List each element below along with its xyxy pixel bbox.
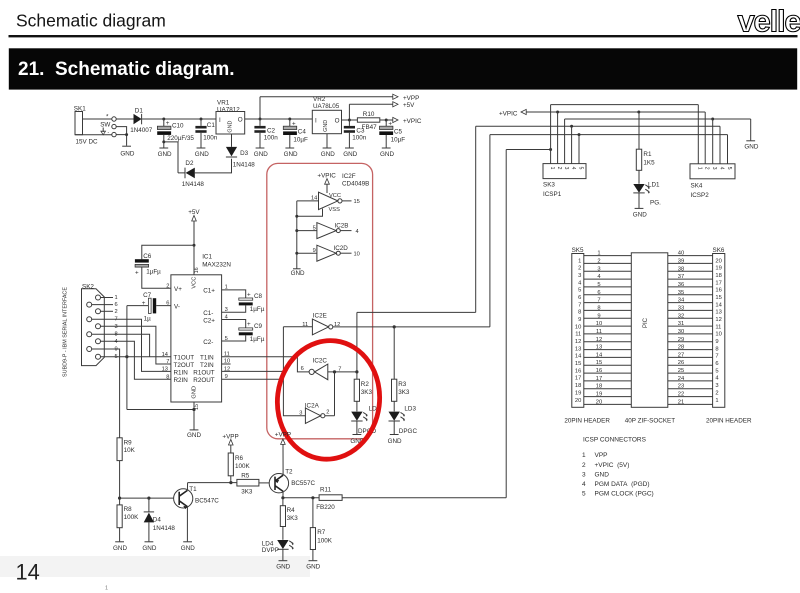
svg-text:VPP: VPP [595, 452, 608, 459]
svg-text:2: 2 [166, 283, 169, 289]
svg-text:+5V: +5V [188, 209, 200, 216]
svg-text:11: 11 [302, 322, 308, 328]
svg-text:R2: R2 [361, 381, 370, 388]
node [281, 496, 284, 499]
resistor R3 [392, 327, 410, 412]
ground [291, 269, 305, 277]
svg-text:GND: GND [323, 120, 329, 132]
power +5V (MAX232) [188, 209, 200, 275]
wire base line [120, 497, 174, 499]
svg-text:SK4: SK4 [691, 183, 703, 190]
wire R2OUT to IC2A [222, 379, 306, 415]
svg-text:40P ZIF-SOCKET: 40P ZIF-SOCKET [625, 418, 675, 425]
transistor Q2 (T2 BC557C) [269, 444, 315, 498]
svg-text:ICSP1: ICSP1 [543, 191, 562, 198]
svg-text:IC1: IC1 [202, 254, 212, 261]
svg-text:VCC: VCC [329, 193, 341, 199]
svg-text:6: 6 [715, 361, 718, 367]
svg-text:VR2: VR2 [313, 96, 326, 103]
LED LD1 [633, 182, 661, 208]
node [348, 119, 351, 122]
power +5V [393, 102, 415, 110]
power +VPIC (ICSP feed) [499, 109, 526, 117]
node [125, 355, 128, 358]
inverter IC2D [295, 245, 360, 261]
svg-text:IC2B: IC2B [335, 222, 349, 229]
svg-text:1N4007: 1N4007 [130, 127, 153, 134]
resistor R4 [280, 498, 298, 540]
header SK5 [572, 247, 584, 407]
svg-text:C6: C6 [143, 253, 152, 260]
ground [388, 435, 402, 445]
wire [142, 118, 216, 120]
regulator VR1 [216, 100, 245, 135]
svg-text:R5: R5 [241, 473, 250, 480]
svg-text:T2IN: T2IN [200, 362, 214, 369]
pin 7 wire [92, 317, 171, 372]
svg-text:1µFµ: 1µFµ [146, 268, 161, 275]
wire SK5 to ZIF pin rows [584, 256, 632, 405]
svg-text:32: 32 [678, 313, 684, 319]
svg-text:8: 8 [578, 310, 581, 316]
svg-text:GND: GND [276, 564, 290, 571]
inverter IC2F [297, 192, 360, 216]
diode D2 [178, 160, 204, 188]
svg-text:13: 13 [575, 346, 581, 352]
wire collector row [283, 497, 319, 499]
svg-text:IC2F: IC2F [342, 173, 356, 180]
wire [116, 127, 126, 146]
svg-text:R1IN: R1IN [174, 369, 189, 376]
IC PIC 40P ZIF socket [631, 253, 668, 407]
svg-text:R10: R10 [363, 111, 375, 118]
ground [744, 141, 758, 151]
svg-text:3: 3 [711, 167, 717, 170]
node [549, 148, 552, 151]
svg-text:9: 9 [313, 248, 316, 254]
svg-text:O: O [238, 117, 243, 124]
svg-text:14: 14 [715, 302, 722, 308]
svg-text:6: 6 [597, 290, 600, 296]
node [556, 111, 559, 114]
svg-text:DPGC: DPGC [399, 428, 418, 435]
svg-text:3K3: 3K3 [241, 488, 253, 495]
svg-text:16: 16 [715, 288, 721, 294]
capacitor C7 [127, 292, 171, 322]
svg-text:2: 2 [556, 167, 562, 170]
capacitor C9 [222, 320, 265, 344]
svg-text:4: 4 [718, 167, 724, 170]
svg-text:GND: GND [195, 151, 209, 158]
svg-text:vellem: vellem [738, 4, 800, 39]
svg-text:19: 19 [596, 392, 602, 398]
pin 3 wire [101, 324, 171, 364]
svg-text:+VPIC: +VPIC [499, 110, 518, 117]
svg-text:20: 20 [596, 399, 602, 405]
resistor R6 [228, 453, 250, 483]
svg-text:1: 1 [578, 258, 581, 264]
svg-text:4: 4 [115, 339, 118, 345]
svg-text:GND: GND [380, 151, 394, 158]
svg-text:5: 5 [597, 282, 600, 288]
pin 1 [101, 295, 118, 301]
svg-text:5: 5 [578, 288, 581, 294]
svg-text:D2: D2 [185, 160, 194, 167]
connector SK4 ICSP2 [690, 164, 735, 199]
svg-text:C2-: C2- [203, 339, 213, 346]
ZIF right pin numbers [678, 251, 685, 406]
svg-text:5: 5 [715, 368, 718, 374]
svg-text:100n: 100n [352, 135, 367, 142]
svg-text:C2+: C2+ [203, 317, 215, 324]
node [162, 118, 165, 121]
svg-text:PIC: PIC [643, 317, 649, 328]
resistor R1 [636, 112, 655, 184]
wire GND rail [565, 119, 751, 140]
SK5 pin numbers [575, 258, 582, 404]
svg-text:IC2C: IC2C [313, 358, 328, 365]
diode D3 [226, 134, 255, 168]
node [118, 497, 121, 500]
diode D4 [144, 497, 176, 542]
svg-text:C1-: C1- [203, 310, 213, 317]
wire PGD drop [475, 126, 477, 312]
svg-text:GND: GND [142, 545, 156, 552]
capacitor C6 [135, 245, 194, 288]
svg-text:1: 1 [582, 452, 586, 459]
svg-text:LD1: LD1 [648, 182, 660, 189]
svg-text:5: 5 [726, 167, 732, 170]
ground [195, 148, 209, 158]
wire VPIC rail [526, 111, 705, 113]
svg-text:PG.: PG. [650, 200, 661, 207]
svg-text:6: 6 [578, 295, 581, 301]
wire MAX232 gnd [127, 402, 194, 430]
svg-text:1µFµ: 1µFµ [250, 336, 265, 343]
svg-text:C1: C1 [207, 122, 216, 129]
node [578, 133, 581, 136]
svg-text:D4: D4 [153, 517, 162, 524]
wire SK4 pins [698, 105, 727, 164]
svg-text:T1OUT: T1OUT [174, 355, 195, 362]
svg-text:33: 33 [678, 305, 684, 311]
node [311, 496, 314, 499]
svg-text:GND: GND [306, 564, 320, 571]
svg-text:40: 40 [678, 251, 684, 257]
svg-text:1: 1 [697, 167, 703, 170]
svg-text:7: 7 [115, 317, 118, 323]
svg-text:PGM CLOCK (PGC): PGM CLOCK (PGC) [595, 491, 654, 498]
svg-text:21: 21 [678, 399, 684, 405]
highlight box (red rounded rect) [267, 163, 373, 438]
svg-text:GND: GND [388, 438, 402, 445]
svg-text:11: 11 [596, 329, 602, 335]
svg-text:C9: C9 [254, 323, 263, 330]
ground [350, 435, 364, 445]
svg-text:12: 12 [596, 337, 602, 343]
svg-text:3: 3 [299, 410, 302, 416]
svg-text:11: 11 [575, 332, 581, 338]
svg-text:BC547C: BC547C [195, 497, 219, 504]
svg-text:O: O [335, 117, 340, 124]
wire PGD rail [476, 125, 720, 127]
ground [321, 148, 335, 158]
inverter IC2B [295, 222, 358, 238]
svg-text:2: 2 [597, 258, 600, 264]
svg-text:4: 4 [570, 167, 576, 170]
svg-text:GND: GND [254, 151, 268, 158]
svg-text:15V DC: 15V DC [76, 139, 99, 146]
svg-text:17: 17 [575, 376, 581, 382]
svg-text:R1: R1 [643, 151, 652, 158]
svg-text:T1IN: T1IN [200, 355, 214, 362]
svg-text:C4: C4 [298, 129, 307, 136]
svg-text:3: 3 [563, 167, 569, 170]
svg-text:1: 1 [715, 398, 718, 404]
svg-text:R6: R6 [235, 455, 244, 462]
pin 9 wire [92, 347, 120, 438]
svg-text:100K: 100K [317, 537, 333, 544]
svg-text:5: 5 [577, 167, 583, 170]
svg-text:R8: R8 [124, 506, 133, 513]
svg-text:8: 8 [715, 346, 718, 352]
svg-text:+VPIC (5V): +VPIC (5V) [595, 462, 630, 469]
svg-text:V-: V- [174, 304, 180, 311]
svg-text:1µ: 1µ [144, 315, 152, 322]
svg-text:220µF/35: 220µF/35 [167, 135, 194, 142]
svg-text:1N4148: 1N4148 [233, 161, 256, 168]
svg-text:28: 28 [678, 345, 684, 351]
node [125, 133, 128, 136]
svg-text:GND: GND [291, 270, 305, 277]
power +VPIC (inverter) [317, 172, 369, 193]
wire VPP rail [551, 104, 699, 106]
diode D1 [130, 108, 153, 134]
svg-text:20PIN HEADER: 20PIN HEADER [706, 418, 752, 425]
svg-text:14: 14 [596, 352, 603, 358]
svg-text:20: 20 [715, 258, 721, 264]
svg-text:3: 3 [597, 266, 600, 272]
node [333, 370, 336, 373]
svg-text:9: 9 [715, 339, 718, 345]
ground [633, 208, 647, 218]
capacitor C4 [283, 119, 308, 148]
svg-text:31: 31 [678, 321, 684, 327]
svg-text:100n: 100n [203, 135, 218, 142]
svg-text:GND: GND [187, 432, 201, 439]
svg-text:D1: D1 [135, 108, 144, 115]
svg-text:14: 14 [16, 560, 40, 585]
ground [113, 542, 127, 552]
wire T2IN stub [222, 363, 231, 365]
svg-text:IC2A: IC2A [305, 402, 320, 409]
svg-text:3K3: 3K3 [287, 515, 299, 522]
svg-text:GND: GND [181, 545, 195, 552]
svg-text:15: 15 [596, 360, 602, 366]
svg-text:SK6: SK6 [713, 247, 725, 254]
wire [75, 119, 112, 135]
svg-text:SK2: SK2 [82, 284, 94, 291]
svg-text:100K: 100K [235, 463, 251, 470]
svg-text:C1+: C1+ [203, 288, 215, 295]
svg-text:GND: GND [744, 144, 758, 151]
svg-text:GND: GND [595, 471, 610, 478]
svg-text:R4: R4 [287, 507, 296, 514]
pin 4 wire [101, 339, 171, 380]
svg-text:ICSP2: ICSP2 [691, 192, 710, 199]
svg-text:9: 9 [578, 317, 581, 323]
svg-text:4: 4 [356, 229, 359, 235]
svg-text:9: 9 [115, 347, 118, 353]
svg-text:C5: C5 [394, 129, 403, 136]
svg-text:10: 10 [596, 321, 602, 327]
svg-text:13: 13 [715, 310, 721, 316]
svg-text:R11: R11 [320, 486, 332, 493]
svg-text:8: 8 [115, 332, 118, 338]
ground [380, 148, 394, 158]
svg-text:9: 9 [597, 313, 600, 319]
svg-text:3: 3 [715, 383, 718, 389]
LED LD2 [351, 406, 380, 435]
svg-text:VSS: VSS [329, 207, 341, 213]
wire from VR1 out [245, 97, 393, 119]
LED LD3 [389, 406, 418, 435]
wire collector [188, 482, 237, 484]
svg-text:+VPP: +VPP [275, 432, 291, 439]
svg-text:14: 14 [575, 354, 582, 360]
svg-text:29: 29 [678, 337, 684, 343]
ground [181, 542, 195, 552]
svg-text:IC2D: IC2D [334, 245, 349, 252]
svg-text:1K5: 1K5 [643, 160, 655, 167]
svg-text:18: 18 [715, 273, 721, 279]
svg-text:4: 4 [582, 481, 586, 488]
svg-text:GND: GND [120, 150, 134, 157]
resistor R2 [354, 372, 372, 412]
svg-text:16: 16 [575, 368, 581, 374]
pin 6 [92, 302, 118, 308]
svg-text:20PIN HEADER: 20PIN HEADER [564, 418, 610, 425]
svg-text:T2: T2 [285, 469, 293, 476]
connector SK3 ICSP1 [543, 164, 586, 198]
svg-text:23: 23 [678, 384, 684, 390]
svg-text:35: 35 [678, 290, 684, 296]
svg-text:5: 5 [582, 491, 586, 498]
svg-text:37: 37 [678, 274, 684, 280]
header rule [9, 35, 798, 37]
wire IC2E out (PGC net) [333, 326, 490, 328]
svg-text:CD4049B: CD4049B [342, 181, 369, 188]
svg-text:3K3: 3K3 [361, 389, 373, 396]
svg-text:UA7812: UA7812 [217, 106, 240, 113]
svg-text:R3: R3 [398, 381, 407, 388]
svg-text:GND: GND [113, 545, 127, 552]
svg-text:SK5: SK5 [572, 247, 584, 254]
svg-text:1: 1 [549, 167, 555, 170]
svg-text:+: + [142, 300, 146, 307]
svg-text:C8: C8 [254, 293, 263, 300]
svg-text:12: 12 [575, 339, 581, 345]
svg-text:SK3: SK3 [543, 182, 555, 189]
svg-text:+: + [135, 270, 139, 277]
svg-text:20: 20 [575, 398, 581, 404]
svg-text:+5V: +5V [403, 102, 415, 109]
svg-text:2: 2 [704, 167, 710, 170]
svg-text:26: 26 [678, 360, 684, 366]
svg-text:1µFµ: 1µFµ [250, 306, 265, 313]
svg-text:BC557C: BC557C [291, 480, 315, 487]
svg-text:+VPIC: +VPIC [403, 118, 422, 125]
node [393, 325, 396, 328]
svg-text:19: 19 [575, 390, 581, 396]
svg-text:10µF: 10µF [293, 136, 308, 143]
svg-text:FB47: FB47 [362, 124, 378, 131]
svg-text:+VPP: +VPP [403, 95, 419, 102]
svg-text:17: 17 [596, 376, 602, 382]
capacitor C1 [195, 118, 217, 148]
svg-text:GND: GND [633, 211, 647, 218]
svg-text:16: 16 [194, 267, 200, 273]
svg-text:ICSP CONNECTORS: ICSP CONNECTORS [583, 437, 647, 444]
svg-text:3: 3 [582, 471, 586, 478]
switch SW [100, 114, 116, 137]
node [193, 244, 196, 247]
resistor R9 [117, 438, 136, 505]
svg-text:12: 12 [715, 317, 721, 323]
resistor R8 [117, 505, 139, 542]
node [711, 118, 714, 121]
ground [343, 148, 357, 158]
svg-text:18: 18 [596, 384, 602, 390]
svg-text:18: 18 [575, 383, 581, 389]
svg-text:17: 17 [715, 280, 721, 286]
svg-text:3: 3 [578, 273, 581, 279]
svg-text:36: 36 [678, 282, 684, 288]
svg-text:19: 19 [715, 266, 721, 272]
svg-text:10: 10 [575, 324, 581, 330]
svg-text:10: 10 [354, 252, 360, 258]
svg-text:MAX232N: MAX232N [202, 261, 231, 268]
capacitor C3 [344, 120, 367, 148]
inverter IC2C [301, 358, 357, 380]
svg-text:R2OUT: R2OUT [193, 377, 214, 384]
pin 2 [101, 309, 118, 315]
ZIF left pin numbers [596, 251, 603, 406]
inverter input bus [296, 201, 298, 269]
wire SK3 pins [551, 105, 579, 164]
svg-text:C10: C10 [172, 123, 184, 130]
node [637, 111, 640, 114]
svg-text:6: 6 [115, 302, 118, 308]
svg-text:6: 6 [301, 366, 304, 372]
svg-text:7: 7 [715, 354, 718, 360]
power +VPP [393, 94, 419, 102]
svg-text:+: + [247, 321, 251, 328]
svg-text:T2OUT: T2OUT [174, 362, 195, 369]
wire [116, 118, 133, 120]
svg-text:15: 15 [575, 361, 581, 367]
svg-text:25: 25 [678, 368, 684, 374]
svg-text:100n: 100n [264, 135, 279, 142]
svg-text:DVPP: DVPP [262, 547, 279, 554]
node [192, 408, 195, 411]
svg-text:GND: GND [284, 151, 298, 158]
svg-text:+: + [247, 291, 251, 298]
wire PGC drop [489, 135, 491, 327]
wire gnd drop [126, 306, 128, 410]
power +VPP (R6) [222, 433, 238, 453]
svg-text:UA78L05: UA78L05 [313, 103, 340, 110]
